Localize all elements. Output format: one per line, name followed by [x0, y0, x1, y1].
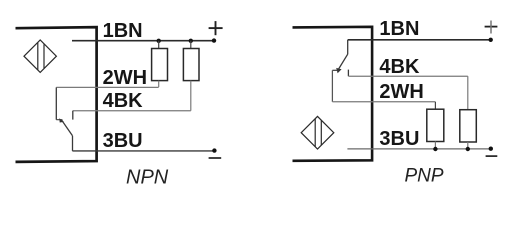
node terminal + left: [212, 38, 216, 42]
switch left: 2WH contact leg: [55, 87, 57, 119]
svg-text:4BK: 4BK: [379, 56, 420, 78]
plus symbol left: [209, 21, 223, 35]
wire 1BN left (brown, +): [72, 40, 214, 42]
svg-text:2WH: 2WH: [379, 81, 423, 103]
wire 4BK left (black output): [73, 110, 191, 112]
switch right: 4BK contact stub: [347, 70, 349, 77]
node junction R2 top left: [189, 39, 193, 43]
resistor load R1 right: [434, 102, 436, 109]
wire 2WH right (white output): [332, 101, 435, 103]
switch left: lever: [62, 120, 73, 136]
wire 1BN right (brown, +): [348, 39, 491, 41]
svg-text:PNP: PNP: [405, 165, 444, 186]
switch right: 1BN common leg: [347, 40, 349, 55]
wire 3BU left (blue, -): [72, 150, 214, 152]
optical sensor symbol left (diamond): [24, 40, 56, 72]
node terminal - right: [489, 147, 493, 151]
switch right: contact tick: [332, 69, 338, 71]
plus symbol right: [485, 21, 498, 34]
switch right: arrowhead: [336, 68, 341, 73]
node terminal - left: [212, 148, 216, 152]
svg-text:2WH: 2WH: [103, 67, 147, 89]
switch right: leg down to 2WH: [331, 70, 333, 102]
node junction R2 bottom right: [466, 147, 470, 151]
svg-text:1BN: 1BN: [103, 20, 143, 42]
svg-text:1BN: 1BN: [379, 18, 419, 40]
wire 2WH left (white output): [56, 86, 158, 88]
switch left: contact tick: [56, 119, 62, 121]
optical sensor symbol right (diamond): [301, 116, 334, 149]
wire 4BK right (black output): [348, 75, 467, 77]
node junction R1 top left: [157, 39, 161, 43]
switch left: arrowhead: [59, 118, 64, 122]
svg-text:3BU: 3BU: [103, 130, 143, 152]
resistor load R2 left: [190, 41, 192, 49]
svg-text:NPN: NPN: [126, 166, 169, 188]
node junction R1 bottom right: [433, 147, 437, 151]
sensor box right (PNP): [293, 27, 373, 161]
minus symbol left: [209, 157, 222, 159]
minus symbol right: [486, 155, 498, 157]
resistor load R2 right: [467, 76, 469, 110]
node terminal + right: [489, 38, 493, 42]
sensor box left (NPN): [16, 27, 97, 162]
svg-text:3BU: 3BU: [379, 128, 419, 150]
switch left: 4BK contact stub: [72, 111, 74, 120]
switch left: common leg to 3BU: [72, 136, 74, 151]
wire 3BU right (blue, -): [347, 148, 490, 150]
svg-text:4BK: 4BK: [103, 90, 144, 112]
switch right: lever: [338, 54, 348, 70]
resistor load R1 left: [158, 41, 160, 49]
